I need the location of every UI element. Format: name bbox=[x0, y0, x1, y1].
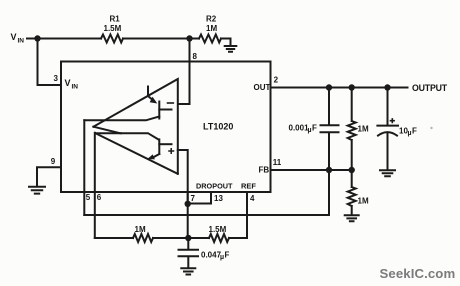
wire VIN drop to pin 3 bbox=[38, 39, 62, 86]
ground at C3 bbox=[181, 268, 195, 274]
node bottom junction bbox=[185, 235, 191, 241]
svg-text:1M: 1M bbox=[358, 125, 369, 134]
label VIN input bbox=[11, 32, 25, 45]
resistor R4 1.5M bottom bbox=[209, 234, 229, 242]
capacitor C3 0.047uF bbox=[179, 238, 199, 268]
wire pin 7 to bottom row bbox=[187, 204, 189, 238]
svg-text:0.047: 0.047 bbox=[201, 250, 222, 259]
svg-text:5: 5 bbox=[86, 193, 91, 202]
svg-text:IN: IN bbox=[72, 83, 79, 90]
svg-text:OUT: OUT bbox=[254, 83, 271, 92]
wire row B middle bbox=[153, 237, 209, 239]
svg-text:R2: R2 bbox=[206, 14, 217, 23]
scan speck bbox=[430, 127, 432, 129]
IC U1 LT1020 box bbox=[61, 62, 271, 193]
svg-text:FB: FB bbox=[259, 165, 270, 174]
svg-text:R1: R1 bbox=[110, 14, 121, 23]
wire R1 to R2 bbox=[123, 38, 199, 40]
svg-text:11: 11 bbox=[273, 158, 282, 167]
svg-text:3: 3 bbox=[54, 74, 59, 83]
svg-text:LT1020: LT1020 bbox=[203, 121, 233, 131]
op-amp output mid line bbox=[93, 127, 158, 140]
node pin8 junction bbox=[186, 35, 192, 41]
wire FB row bbox=[271, 169, 352, 171]
node pin7 junction bbox=[185, 201, 191, 207]
wire plus input to pin 7 bbox=[178, 150, 188, 204]
wire VIN lead to R1 bbox=[27, 38, 101, 40]
pin 7/13 tab bbox=[188, 192, 211, 204]
svg-text:µ: µ bbox=[308, 127, 312, 134]
node FB-R5 bbox=[349, 167, 355, 173]
wire pin 4 bbox=[246, 192, 248, 238]
svg-text:2: 2 bbox=[274, 75, 279, 84]
svg-text:8: 8 bbox=[193, 52, 198, 61]
wire OUT to OUTPUT bbox=[271, 87, 408, 89]
node FB-C1 bbox=[326, 167, 332, 173]
svg-text:IN: IN bbox=[18, 38, 25, 45]
wire pin 6 bbox=[94, 133, 96, 238]
ground at R6 bbox=[345, 215, 359, 221]
op-amp U1b top edge stub bbox=[95, 132, 121, 134]
svg-text:DROPOUT: DROPOUT bbox=[196, 181, 233, 190]
svg-text:REF: REF bbox=[241, 181, 256, 190]
wire row B left bbox=[95, 237, 133, 239]
ground at C2 bbox=[380, 170, 395, 176]
svg-text:V: V bbox=[11, 32, 17, 42]
node OUT-R5 bbox=[349, 84, 355, 90]
op-amp U1b lower triangle hypotenuse bbox=[95, 133, 177, 174]
resistor R2 bbox=[199, 35, 221, 43]
node OUT-C1 bbox=[326, 84, 332, 90]
transistor Q2 base lead bbox=[159, 143, 171, 145]
wire pin5 to Q1 bbox=[84, 117, 159, 121]
svg-text:0.001: 0.001 bbox=[289, 123, 310, 132]
transistor Q2 base bar bbox=[158, 139, 160, 154]
svg-text:F: F bbox=[412, 127, 417, 136]
minus input sign bbox=[168, 102, 174, 104]
wire R2 to ground bbox=[221, 39, 231, 46]
svg-text:F: F bbox=[312, 123, 317, 132]
capacitor C1 0.001uF bbox=[321, 88, 339, 171]
svg-text:µ: µ bbox=[220, 254, 224, 261]
svg-text:6: 6 bbox=[97, 193, 102, 202]
node OUT-C2 bbox=[384, 84, 390, 90]
resistor R5 1M mid bbox=[348, 88, 356, 171]
svg-text:F: F bbox=[225, 250, 230, 259]
wire row B right bbox=[229, 237, 247, 239]
svg-text:µ: µ bbox=[408, 130, 412, 137]
wire pin 8 drop bbox=[179, 39, 190, 105]
transistor Q1 emitter stub bbox=[147, 87, 149, 97]
wire pin 9 bbox=[37, 167, 61, 186]
ground at R2 bbox=[225, 46, 237, 52]
transistor Q1 emitter arrow bbox=[148, 96, 155, 102]
resistor R3 1M bottom bbox=[133, 234, 153, 242]
wire row A pin5 to FB riser bbox=[84, 170, 329, 215]
svg-text:1M: 1M bbox=[206, 24, 217, 33]
svg-text:1.5M: 1.5M bbox=[209, 225, 227, 234]
plus input sign bbox=[169, 149, 174, 153]
resistor R6 1M lower bbox=[348, 170, 356, 215]
svg-text:1.5M: 1.5M bbox=[104, 24, 122, 33]
svg-text:4: 4 bbox=[250, 194, 255, 203]
transistor Q1 base bar bbox=[158, 102, 160, 119]
svg-text:V: V bbox=[65, 78, 71, 88]
svg-text:7: 7 bbox=[191, 194, 196, 203]
capacitor C2 10uF bbox=[377, 88, 398, 170]
wire pin 5 bbox=[83, 120, 85, 215]
resistor R1 bbox=[101, 35, 123, 43]
svg-text:13: 13 bbox=[214, 194, 223, 203]
plus polarity mark bbox=[391, 119, 395, 123]
transistor Q2 emitter arrow bbox=[152, 154, 159, 158]
svg-text:1M: 1M bbox=[135, 225, 146, 234]
svg-text:SeekIC.com: SeekIC.com bbox=[380, 266, 456, 281]
ground at pin 9 bbox=[29, 187, 45, 194]
node VIN junction bbox=[34, 35, 40, 41]
transistor Q1 base lead bbox=[159, 109, 171, 111]
svg-text:OUTPUT: OUTPUT bbox=[412, 83, 448, 93]
svg-text:9: 9 bbox=[51, 157, 56, 166]
svg-text:1M: 1M bbox=[358, 197, 369, 206]
op-amp U1a upper triangle bbox=[93, 79, 177, 174]
